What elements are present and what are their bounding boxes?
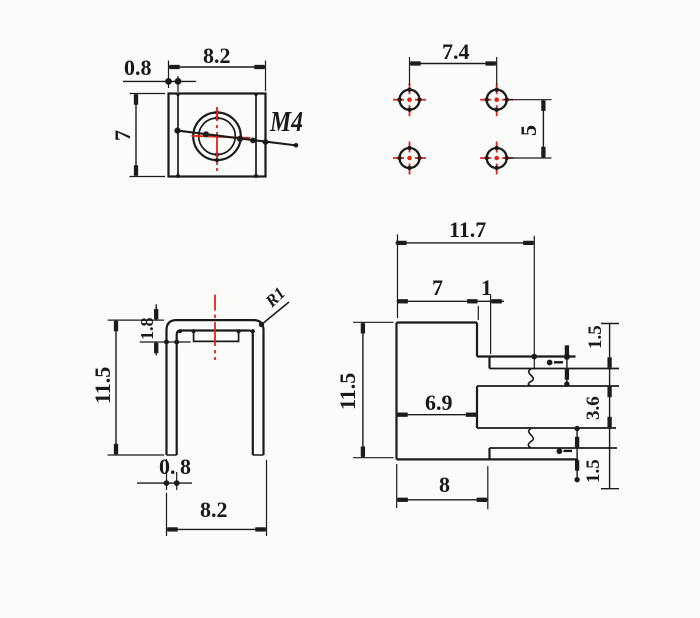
hole M4 outer circle [193,113,241,161]
svg-text:1.5: 1.5 [585,325,606,349]
svg-text:8.2: 8.2 [200,497,228,522]
break squiggle upper [528,369,533,386]
square body outline [169,94,266,177]
junction dots inner walls [176,174,180,178]
pin1 left step [488,357,490,369]
svg-text:7: 7 [432,275,443,300]
pin2 top edge [490,447,618,449]
side body top edge [397,321,478,323]
pin2 center mark [557,449,572,454]
hole pin TR [480,83,513,116]
tab top edge [477,385,619,387]
inner wall line left [177,95,179,176]
pin1 bottom edge [490,368,620,370]
dimension 5 (hole spacing vertical) [509,100,552,158]
bracket outer profile [167,320,264,455]
svg-text:8.2: 8.2 [203,43,231,68]
dimension column right (1.5 gap and 3.6 tab) [601,324,619,489]
dimension 7 (left height) [130,94,166,177]
side body left edge [395,323,397,460]
dimension 11.5 (front height) [108,320,164,455]
leader line M4 [175,128,298,147]
svg-text:11.5: 11.5 [335,373,360,410]
dimension 8 (bottom width) [397,464,488,509]
side body right edge upper [476,323,478,357]
dimension 0.8 (wall thickness top-left) [123,76,196,92]
red centerline vertical (hole) [192,107,251,171]
leg bottom caps [167,454,264,456]
hole pin BR [480,142,513,175]
dimension 11.5 (side height) [353,322,394,457]
slot corner dots [192,329,196,333]
hole pin BL [393,142,426,175]
svg-text:7: 7 [110,130,135,141]
svg-text:6.9: 6.9 [425,390,453,415]
svg-text:0.: 0. [159,454,176,479]
svg-text:8: 8 [180,454,191,479]
dimension 1.5 bottom (pin2 gap) [575,427,579,482]
hole M4 thread circle [199,118,236,155]
svg-text:1.8: 1.8 [137,318,157,341]
hole pin TL [393,83,426,116]
bracket inner profile [177,331,253,456]
svg-text:7.4: 7.4 [442,39,470,64]
red centerline vertical (bracket) [214,295,216,360]
dimension 1.8 (top offset) [140,304,191,355]
dimension 0.8 (leg thickness) [137,459,192,490]
svg-text:0.8: 0.8 [124,55,152,80]
svg-text:1.5: 1.5 [583,459,604,483]
svg-text:1: 1 [481,275,492,300]
dimension 7.4 (hole spacing horizontal) [410,57,497,85]
pin1 center mark [547,360,563,365]
body and pin2 bottom edge [397,458,579,460]
slot rectangle [194,331,239,341]
dimension 7 and 1 (top steps) [397,295,504,354]
pin2 left step [488,448,490,459]
svg-text:11.5: 11.5 [90,367,115,404]
dimension 6.9 (body width mid) [397,414,478,416]
svg-text:11.7: 11.7 [449,217,486,242]
red centerline horizontal (hole) [192,136,251,138]
svg-text:M4: M4 [269,105,303,138]
tab left edge [476,386,478,428]
svg-text:8: 8 [439,472,450,497]
break squiggle lower [528,429,533,448]
pin1 top edge [477,355,576,357]
inner wall line right [255,95,257,176]
dimension 11.7 (overall depth) [395,234,536,369]
dimension 8.2 (bracket width) [167,460,267,536]
svg-text:5: 5 [516,125,541,136]
svg-text:R1: R1 [261,283,289,311]
dimension 1.5 top (pin1 thickness) [565,345,570,386]
label R1 leader [259,302,289,327]
tab bottom edge [477,427,616,429]
dimension 8.2 (top width) [169,61,266,92]
svg-text:3.6: 3.6 [583,396,604,420]
